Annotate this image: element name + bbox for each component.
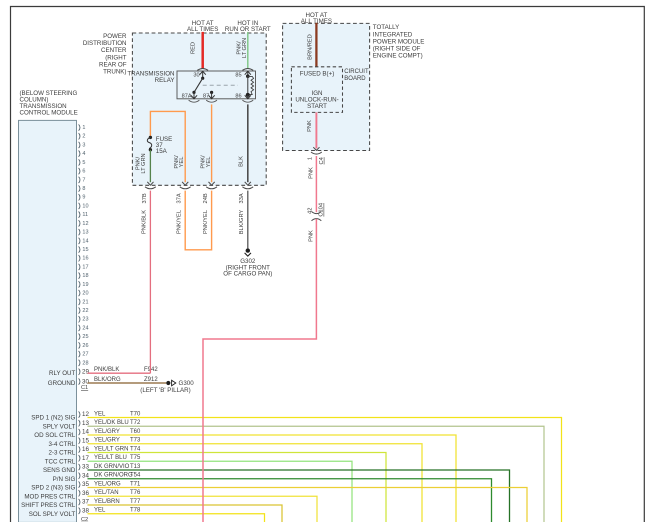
wire BLK from relay 86 to connector 33A xyxy=(238,104,247,182)
TCM connector C1 pins 1-28 xyxy=(79,124,89,366)
svg-text:SHIFT PRES CTRL: SHIFT PRES CTRL xyxy=(21,502,76,509)
svg-text:OD SOL CTRL: OD SOL CTRL xyxy=(34,432,76,439)
svg-text:85: 85 xyxy=(235,73,241,79)
svg-text:12: 12 xyxy=(82,221,88,227)
svg-text:(RIGHT: (RIGHT xyxy=(105,54,127,61)
svg-text:P/N SIG: P/N SIG xyxy=(53,476,76,483)
PDC connector 37B xyxy=(142,182,156,204)
svg-text:SOL SPLY VOLT: SOL SPLY VOLT xyxy=(29,511,76,518)
svg-text:42: 42 xyxy=(308,208,314,214)
power feed node: HOT IN RUN OR START xyxy=(225,20,271,33)
svg-text:POWER MODULE: POWER MODULE xyxy=(373,38,425,45)
wire PNK/YEL from relay 87 to connector 24B xyxy=(201,104,212,182)
TCM pin 29 RLY OUT, wire PNK/BLK F942 xyxy=(49,367,158,377)
svg-text:T75: T75 xyxy=(130,455,141,461)
svg-text:3: 3 xyxy=(82,142,85,148)
svg-text:6: 6 xyxy=(82,169,85,175)
power feed node: HOT AT ALL TIMES (TIPM) xyxy=(301,12,332,25)
svg-text:10: 10 xyxy=(82,203,88,209)
svg-text:YEL/LT BLU: YEL/LT BLU xyxy=(94,455,127,461)
svg-text:30: 30 xyxy=(193,73,199,79)
svg-text:37A: 37A xyxy=(177,193,183,203)
svg-text:24: 24 xyxy=(82,325,88,331)
relay internal dashed link xyxy=(203,84,238,86)
wire PNK/YEL external jumper 37A to 24B xyxy=(177,191,212,250)
module: transmission control module (TCM) xyxy=(19,90,78,522)
svg-text:C4: C4 xyxy=(319,157,325,164)
TIPM internal fused B(+) / ign unlock-run-start block (dashed) xyxy=(291,67,342,113)
svg-text:PNK: PNK xyxy=(308,167,314,179)
PDC connector 24B xyxy=(203,182,217,204)
svg-text:87A: 87A xyxy=(182,94,192,100)
svg-text:PNK/YEL: PNK/YEL xyxy=(177,210,183,234)
svg-text:OF CARGO PAN): OF CARGO PAN) xyxy=(223,271,272,278)
svg-text:T71: T71 xyxy=(130,481,141,487)
svg-text:F942: F942 xyxy=(144,367,158,373)
inline connector C104 pin 42 xyxy=(308,203,325,221)
svg-text:TOTALLY: TOTALLY xyxy=(373,24,399,31)
svg-text:SPD 1 (N2) SIG: SPD 1 (N2) SIG xyxy=(31,415,75,422)
svg-text:PNK/BLK: PNK/BLK xyxy=(94,367,119,373)
svg-text:REAR OF: REAR OF xyxy=(99,62,127,69)
svg-text:RED: RED xyxy=(191,42,197,54)
relay pin 86 terminal xyxy=(235,94,251,100)
TCM pin 38 SOL SPLY VOLT, wire YEL T78 xyxy=(29,507,265,522)
wire BLK/GRY from 33A to ground G302 xyxy=(239,191,248,249)
svg-text:17: 17 xyxy=(82,264,88,270)
svg-text:8: 8 xyxy=(82,186,85,192)
svg-text:21: 21 xyxy=(82,299,88,305)
PDC connector 33A xyxy=(239,182,253,204)
power feed node: HOT AT ALL TIMES (left) xyxy=(187,20,218,33)
svg-text:CONTROL MODULE: CONTROL MODULE xyxy=(20,110,78,117)
svg-text:T76: T76 xyxy=(130,490,141,496)
wire PNK/LT GRN from fuse 37 to connector 37B xyxy=(135,150,150,182)
svg-text:19: 19 xyxy=(82,282,88,288)
PDC connector 37A xyxy=(177,182,191,204)
relay socket cup above pin 30 xyxy=(197,68,208,70)
svg-text:BRN/RED: BRN/RED xyxy=(307,34,313,60)
svg-text:YEL/BRN: YEL/BRN xyxy=(94,499,120,505)
svg-text:YEL/LT GRN: YEL/LT GRN xyxy=(94,446,128,452)
svg-text:TRUNK): TRUNK) xyxy=(103,69,126,76)
svg-text:T77: T77 xyxy=(130,499,141,505)
svg-text:FUSED B(+): FUSED B(+) xyxy=(300,71,335,78)
svg-text:20: 20 xyxy=(82,291,88,297)
svg-text:SPLY VOLT: SPLY VOLT xyxy=(43,423,76,430)
svg-text:PNK: PNK xyxy=(307,120,313,132)
svg-text:C104: C104 xyxy=(319,203,325,217)
TIPM circuit board label xyxy=(344,69,369,82)
svg-text:YEL/GRY: YEL/GRY xyxy=(94,438,120,444)
relay switch arm 30 to 87A xyxy=(194,78,203,92)
wire PNK/LT GRN from feed to relay pin 85 xyxy=(237,32,248,69)
relay socket cup below pin 87 xyxy=(206,100,217,102)
wire PNK/BLK from 37B to TCM pin 29 xyxy=(142,191,151,374)
svg-text:86: 86 xyxy=(235,94,241,100)
svg-text:ALL TIMES: ALL TIMES xyxy=(187,26,218,33)
svg-text:28: 28 xyxy=(82,360,88,366)
relay pin 30 terminal xyxy=(193,71,205,80)
svg-text:(LEFT 'B' PILLAR): (LEFT 'B' PILLAR) xyxy=(140,387,190,394)
svg-text:T78: T78 xyxy=(130,508,141,514)
relay: transmission relay xyxy=(127,70,255,98)
svg-text:BLK/GRY: BLK/GRY xyxy=(239,210,245,235)
wire BRN/RED feed into TIPM fuse block xyxy=(307,23,316,67)
svg-text:23: 23 xyxy=(82,317,88,323)
svg-text:7: 7 xyxy=(82,177,85,183)
svg-text:DISTRIBUTION: DISTRIBUTION xyxy=(83,40,127,47)
svg-text:DK GRN/ORG: DK GRN/ORG xyxy=(94,473,133,479)
TCM pin 17 TCC CTRL, wire YEL/LT BLU T75 xyxy=(45,455,352,522)
svg-text:2-3 CTRL: 2-3 CTRL xyxy=(48,450,75,457)
svg-text:POWER: POWER xyxy=(103,33,127,40)
svg-text:11: 11 xyxy=(82,212,88,218)
svg-text:RLY OUT: RLY OUT xyxy=(49,370,75,377)
svg-text:24B: 24B xyxy=(203,193,209,203)
svg-text:BLK/ORG: BLK/ORG xyxy=(94,377,121,383)
TIPM connector C4 pin 1 xyxy=(308,147,325,164)
TCM pin 15 3-4 CTRL, wire YEL/GRY T73 xyxy=(48,437,422,522)
TCM pin 16 2-3 CTRL, wire YEL/LT GRN T74 xyxy=(48,446,386,522)
svg-text:RELAY: RELAY xyxy=(155,77,175,84)
TCM pin 13 SPLY VOLT, wire YEL/DK BLU T72 xyxy=(43,420,544,522)
svg-text:TCC CTRL: TCC CTRL xyxy=(45,458,76,465)
svg-text:LT GRN: LT GRN xyxy=(242,38,248,58)
svg-text:C2: C2 xyxy=(81,517,88,522)
svg-text:MOD PRES CTRL: MOD PRES CTRL xyxy=(24,493,75,500)
svg-text:T60: T60 xyxy=(130,429,141,435)
svg-text:GROUND: GROUND xyxy=(48,380,76,387)
svg-text:YEL: YEL xyxy=(206,157,212,168)
svg-text:37B: 37B xyxy=(142,193,148,203)
ground G302 (right front of cargo pan) xyxy=(223,248,272,277)
TCM pin 35 SPD 2 (N3) SIG, wire YEL/ORG T71 xyxy=(31,481,527,522)
svg-text:33A: 33A xyxy=(239,193,245,203)
svg-text:T72: T72 xyxy=(130,420,141,426)
TCM pin 12 SPD 1 (N2) SIG, wire YEL T70 xyxy=(31,411,561,522)
svg-text:T74: T74 xyxy=(130,446,141,452)
wire RED from hot feed to relay pin 30 xyxy=(191,32,203,69)
svg-text:YEL/ORG: YEL/ORG xyxy=(94,481,121,487)
svg-text:YEL/GRY: YEL/GRY xyxy=(94,429,120,435)
svg-text:YEL/TAN: YEL/TAN xyxy=(94,490,119,496)
svg-text:T70: T70 xyxy=(130,411,141,417)
wire PNK from C104 down and across to TCM area xyxy=(203,219,316,522)
svg-text:START: START xyxy=(307,103,327,110)
svg-text:27: 27 xyxy=(82,352,88,358)
svg-text:T13: T13 xyxy=(130,464,141,470)
module: totally integrated power module (dashed box) xyxy=(283,23,425,150)
relay socket cup below pin 87A xyxy=(189,100,200,102)
svg-text:Z912: Z912 xyxy=(144,377,158,383)
svg-text:PNK/BLK: PNK/BLK xyxy=(142,210,148,234)
TCM pin 37 SHIFT PRES CTRL, wire YEL/BRN T77 xyxy=(21,499,282,522)
svg-text:SENS GND: SENS GND xyxy=(43,467,76,474)
TCM pin 34 P/N SIG, wire DK GRN/ORG T54 xyxy=(53,472,492,522)
svg-text:INTEGRATED: INTEGRATED xyxy=(373,31,413,38)
svg-text:PNK: PNK xyxy=(308,230,314,242)
svg-text:15: 15 xyxy=(82,247,88,253)
svg-text:5: 5 xyxy=(82,160,85,166)
svg-text:PNK/YEL: PNK/YEL xyxy=(203,210,209,234)
svg-text:BLK: BLK xyxy=(238,156,244,167)
splice / ground G300 (left B pillar) xyxy=(140,380,194,394)
svg-text:BOARD: BOARD xyxy=(344,76,366,82)
svg-text:4: 4 xyxy=(82,151,85,157)
svg-text:22: 22 xyxy=(82,308,88,314)
svg-text:DK GRN/VIO: DK GRN/VIO xyxy=(94,464,130,470)
TCM pin 14 OD SOL CTRL, wire YEL/GRY T60 xyxy=(34,429,456,522)
TCM pin 36 MOD PRES CTRL, wire YEL/TAN T76 xyxy=(24,490,317,522)
svg-text:YEL: YEL xyxy=(179,157,185,168)
wire PNK from C4 to inline connector C104 xyxy=(308,156,316,212)
svg-text:YEL/DK BLU: YEL/DK BLU xyxy=(94,420,129,426)
wire PNK/YEL jumper: connector 37A up and across to fuse 37 xyxy=(150,111,185,182)
svg-text:SPD 2 (N3) SIG: SPD 2 (N3) SIG xyxy=(31,485,75,492)
relay pin 87A terminal xyxy=(182,91,197,100)
svg-text:CENTER: CENTER xyxy=(101,47,127,54)
power distribution center (dashed box) xyxy=(83,33,266,185)
svg-text:T54: T54 xyxy=(130,473,141,479)
svg-text:15A: 15A xyxy=(156,148,168,155)
TCM pin 33 SENS GND, wire DK GRN/VIO T13 xyxy=(43,464,510,522)
svg-text:ENGINE COMPT): ENGINE COMPT) xyxy=(373,53,423,60)
relay pin 85 terminal xyxy=(235,71,251,79)
svg-text:C1: C1 xyxy=(81,385,88,391)
svg-text:13: 13 xyxy=(82,230,88,236)
svg-text:29: 29 xyxy=(82,369,89,376)
svg-text:YEL: YEL xyxy=(94,411,106,417)
fuse F37 15A xyxy=(147,136,172,156)
svg-text:25: 25 xyxy=(82,334,88,340)
svg-text:YEL: YEL xyxy=(94,508,106,514)
svg-text:87: 87 xyxy=(203,94,209,100)
svg-text:14: 14 xyxy=(82,238,88,244)
svg-text:(RIGHT SIDE OF: (RIGHT SIDE OF xyxy=(373,46,421,53)
svg-text:26: 26 xyxy=(82,343,88,349)
svg-text:LT GRN: LT GRN xyxy=(141,153,147,173)
svg-text:1: 1 xyxy=(82,125,85,131)
svg-text:3-4 CTRL: 3-4 CTRL xyxy=(48,441,75,448)
svg-text:RUN OR START: RUN OR START xyxy=(225,26,271,33)
wire PNK inside TIPM xyxy=(307,112,316,148)
relay coil (scallops) with parallel resistor (zigzag) between 85 and 86 xyxy=(246,76,254,97)
svg-text:16: 16 xyxy=(82,256,88,262)
relay socket cup below pin 86 xyxy=(242,100,253,102)
svg-text:2: 2 xyxy=(82,134,85,140)
svg-text:9: 9 xyxy=(82,195,85,201)
svg-text:1: 1 xyxy=(308,157,314,160)
TCM pin 30 GROUND, wire BLK/ORG Z912 to G300 xyxy=(48,377,166,387)
relay pin 87 terminal xyxy=(203,91,215,100)
svg-text:T73: T73 xyxy=(130,438,141,444)
svg-text:18: 18 xyxy=(82,273,88,279)
relay socket cup above pin 85 xyxy=(242,68,253,70)
svg-text:CIRCUIT: CIRCUIT xyxy=(344,69,369,75)
